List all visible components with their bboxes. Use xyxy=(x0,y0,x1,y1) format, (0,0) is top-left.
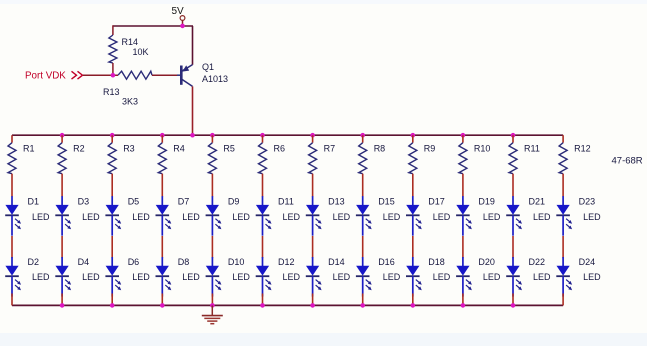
label D20 xyxy=(478,257,495,267)
label R13 xyxy=(103,87,120,97)
label D20 LED xyxy=(483,272,501,282)
label D18 xyxy=(428,257,445,267)
label R7 xyxy=(324,144,336,154)
node bottom bus junction col 4 xyxy=(160,303,165,308)
svg-text:LED: LED xyxy=(483,212,501,222)
svg-text:D21: D21 xyxy=(529,196,546,206)
label D1 xyxy=(28,196,40,206)
node top bus junction col 9 xyxy=(411,133,416,138)
svg-text:D18: D18 xyxy=(428,257,445,267)
label D23 xyxy=(579,196,596,206)
svg-text:47-68R: 47-68R xyxy=(612,156,643,167)
LED D22 xyxy=(506,257,522,297)
svg-text:3K3: 3K3 xyxy=(122,97,138,107)
label D24 LED xyxy=(583,272,601,282)
label D8 xyxy=(178,257,190,267)
wire bus to R12 xyxy=(562,135,564,143)
LED D19 xyxy=(456,196,472,236)
label D11 xyxy=(278,196,294,206)
wire bus to R1 xyxy=(11,135,13,143)
svg-text:LED: LED xyxy=(533,212,551,222)
wire bottom bus xyxy=(12,304,563,306)
label D16 xyxy=(378,257,395,267)
label D17 xyxy=(428,196,445,206)
wire D24 to bottom bus xyxy=(562,294,564,306)
resistor R9 xyxy=(409,143,417,174)
wire bus to R3 xyxy=(111,135,113,143)
wire D1 to D2 xyxy=(11,236,13,258)
wire D9 to D10 xyxy=(211,236,213,258)
label D24 xyxy=(579,257,596,267)
wire bus to R4 xyxy=(161,135,163,143)
label D3 xyxy=(78,196,90,206)
svg-text:LED: LED xyxy=(32,272,50,282)
node top bus junction col 3 xyxy=(110,133,115,138)
label D15 xyxy=(378,196,395,206)
wire D6 to bottom bus xyxy=(111,294,113,306)
label D9 LED xyxy=(232,212,250,222)
node top bus junction col 5 xyxy=(210,133,215,138)
svg-text:D8: D8 xyxy=(178,257,190,267)
LED D3 xyxy=(55,196,71,236)
resistor R2 xyxy=(58,143,66,174)
svg-text:LED: LED xyxy=(383,212,401,222)
svg-text:LED: LED xyxy=(232,272,250,282)
wire bus to R6 xyxy=(262,135,264,143)
label R3 xyxy=(123,144,135,154)
node bottom bus junction col 6 xyxy=(260,303,265,308)
svg-text:D3: D3 xyxy=(78,196,90,206)
port Port_VDK label xyxy=(25,71,66,82)
resistor R11 xyxy=(509,143,517,174)
label D19 xyxy=(478,196,495,206)
svg-text:D24: D24 xyxy=(579,257,596,267)
svg-text:D20: D20 xyxy=(478,257,495,267)
LED D15 xyxy=(356,196,372,236)
wire bus to R11 xyxy=(512,135,514,143)
label D15 LED xyxy=(383,212,401,222)
label D2 LED xyxy=(32,272,50,282)
wire bus to R7 xyxy=(312,135,314,143)
LED D23 xyxy=(556,196,572,236)
wire 5V horizontal xyxy=(113,25,193,27)
label Q1 xyxy=(202,62,214,72)
wire D17 to D18 xyxy=(412,236,414,258)
label D5 xyxy=(128,196,140,206)
label D14 LED xyxy=(333,272,351,282)
wire D5 to D6 xyxy=(111,236,113,258)
label D3 LED xyxy=(82,212,100,222)
svg-text:LED: LED xyxy=(283,212,301,222)
wire R11 to D21 xyxy=(512,174,514,197)
svg-text:R12: R12 xyxy=(574,144,591,154)
svg-text:LED: LED xyxy=(82,272,100,282)
LED D7 xyxy=(156,196,172,236)
wire R4 to D7 xyxy=(161,174,163,197)
node R13/R14 junction xyxy=(111,73,116,78)
wire D23 to D24 xyxy=(562,236,564,258)
node bottom bus junction col 11 xyxy=(511,303,516,308)
label D16 LED xyxy=(383,272,401,282)
label D11 LED xyxy=(283,212,301,222)
wire R14 bottom stub xyxy=(112,63,114,75)
resistor R4 xyxy=(158,143,166,174)
wire D21 to D22 xyxy=(512,236,514,258)
svg-text:LED: LED xyxy=(583,272,601,282)
wire bus to R5 xyxy=(211,135,213,143)
wire D13 to D14 xyxy=(312,236,314,258)
svg-text:10K: 10K xyxy=(133,47,149,57)
svg-text:R5: R5 xyxy=(223,144,235,154)
svg-text:LED: LED xyxy=(383,272,401,282)
label D4 xyxy=(78,257,90,267)
wire D8 to bottom bus xyxy=(161,294,163,306)
LED D9 xyxy=(206,196,222,236)
label D13 xyxy=(328,196,345,206)
svg-text:LED: LED xyxy=(132,272,150,282)
svg-text:R7: R7 xyxy=(324,144,336,154)
svg-text:D19: D19 xyxy=(478,196,495,206)
svg-text:D13: D13 xyxy=(328,196,345,206)
wire R5 to D9 xyxy=(211,174,213,197)
svg-text:D23: D23 xyxy=(579,196,596,206)
label D6 LED xyxy=(132,272,150,282)
node bottom bus junction col 7 xyxy=(310,303,315,308)
label D12 LED xyxy=(283,272,301,282)
resistor R6 xyxy=(259,143,267,174)
svg-text:R10: R10 xyxy=(474,144,491,154)
wire bus to R9 xyxy=(412,135,414,143)
svg-text:LED: LED xyxy=(333,212,351,222)
wire D20 to bottom bus xyxy=(462,294,464,306)
LED D2 xyxy=(5,257,21,297)
wire D18 to bottom bus xyxy=(412,294,414,306)
node top bus junction col 4 xyxy=(160,133,165,138)
LED D5 xyxy=(105,196,121,236)
svg-text:R2: R2 xyxy=(73,144,85,154)
label R8 xyxy=(374,144,386,154)
svg-text:LED: LED xyxy=(82,212,100,222)
node top bus junction col 2 xyxy=(60,133,65,138)
svg-text:LED: LED xyxy=(583,212,601,222)
resistor R3 xyxy=(108,143,116,174)
svg-text:D15: D15 xyxy=(378,196,395,206)
label R12 xyxy=(574,144,591,154)
wire D10 to bottom bus xyxy=(211,294,213,306)
label R1 xyxy=(23,144,35,154)
wire Q1 collector to bus xyxy=(192,86,194,135)
label R6 xyxy=(274,144,286,154)
resistor R13 xyxy=(118,71,152,79)
svg-text:D1: D1 xyxy=(28,196,40,206)
label D2 xyxy=(28,257,40,267)
LED D4 xyxy=(55,257,71,297)
label D9 xyxy=(228,196,240,206)
label D22 xyxy=(529,257,546,267)
svg-text:D7: D7 xyxy=(178,196,190,206)
svg-text:A1013: A1013 xyxy=(202,74,228,84)
svg-text:R11: R11 xyxy=(524,144,540,154)
svg-text:D12: D12 xyxy=(278,257,295,267)
wire R3 to D5 xyxy=(111,174,113,197)
wire D22 to bottom bus xyxy=(512,294,514,306)
label D13 LED xyxy=(333,212,351,222)
LED D6 xyxy=(105,257,121,297)
resistor R14 xyxy=(109,35,117,63)
wire R9 to D17 xyxy=(412,174,414,197)
node bottom bus junction col 3 xyxy=(110,303,115,308)
wire R10 to D19 xyxy=(462,174,464,197)
wire R14 top stub xyxy=(112,25,114,35)
wire bus to R2 xyxy=(61,135,63,143)
wire D14 to bottom bus xyxy=(312,294,314,306)
LED D10 xyxy=(206,257,222,297)
label D23 LED xyxy=(583,212,601,222)
svg-text:R13: R13 xyxy=(103,87,120,97)
LED D24 xyxy=(556,257,572,297)
port Port_VDK chevrons xyxy=(72,71,83,79)
label R14 value 10K xyxy=(133,47,149,57)
LED D1 xyxy=(5,196,21,236)
svg-text:R1: R1 xyxy=(23,144,35,154)
wire D11 to D12 xyxy=(262,236,264,258)
resistor R7 xyxy=(309,143,317,174)
node top bus junction col 7 xyxy=(310,133,315,138)
label R4 xyxy=(173,144,185,154)
node top bus junction col 6 xyxy=(260,133,265,138)
label D21 LED xyxy=(533,212,551,222)
wire D3 to D4 xyxy=(61,236,63,258)
wire R2 to D3 xyxy=(61,174,63,197)
svg-text:LED: LED xyxy=(32,212,50,222)
node bottom bus junction col 2 xyxy=(60,303,65,308)
wire 5V down to Q1 emitter xyxy=(192,26,194,65)
resistor R1 xyxy=(8,143,16,174)
wire bus to R10 xyxy=(462,135,464,143)
LED D17 xyxy=(406,196,422,236)
svg-text:D2: D2 xyxy=(28,257,40,267)
label D7 xyxy=(178,196,190,206)
svg-text:LED: LED xyxy=(333,272,351,282)
label R9 xyxy=(424,144,436,154)
LED D18 xyxy=(406,257,422,297)
label D4 LED xyxy=(82,272,100,282)
label R14 xyxy=(122,37,139,47)
svg-text:D16: D16 xyxy=(378,257,395,267)
label D21 xyxy=(529,196,546,206)
label D17 LED xyxy=(433,212,451,222)
resistor R10 xyxy=(459,143,467,174)
label D14 xyxy=(328,257,345,267)
wire R12 to D23 xyxy=(562,174,564,197)
svg-text:LED: LED xyxy=(433,272,451,282)
label R5 xyxy=(223,144,235,154)
svg-text:R14: R14 xyxy=(122,37,139,47)
label D12 xyxy=(278,257,295,267)
svg-text:D5: D5 xyxy=(128,196,140,206)
svg-text:LED: LED xyxy=(182,272,200,282)
svg-text:LED: LED xyxy=(182,212,200,222)
wire D12 to bottom bus xyxy=(262,294,264,306)
LED D8 xyxy=(156,257,172,297)
label resistor values 47-68R xyxy=(612,156,643,167)
wire top bus xyxy=(12,134,563,136)
ground xyxy=(202,305,223,323)
wire bus to R8 xyxy=(362,135,364,143)
label D18 LED xyxy=(433,272,451,282)
label D19 LED xyxy=(483,212,501,222)
LED D11 xyxy=(256,196,272,236)
node top bus junction col 8 xyxy=(360,133,365,138)
svg-text:LED: LED xyxy=(232,212,250,222)
power 5V terminal circle xyxy=(180,16,185,26)
resistor R5 xyxy=(208,143,216,174)
svg-text:D14: D14 xyxy=(328,257,345,267)
LED D21 xyxy=(506,196,522,236)
label D1 LED xyxy=(32,212,50,222)
svg-text:R4: R4 xyxy=(173,144,185,154)
node 5V junction xyxy=(180,24,185,29)
svg-text:Q1: Q1 xyxy=(202,62,214,72)
wire D2 to bottom bus xyxy=(11,294,13,306)
power 5V label xyxy=(172,6,185,17)
transistor Q1 xyxy=(177,65,193,87)
node bottom bus junction col 9 xyxy=(411,303,416,308)
node bottom bus junction col 5 xyxy=(210,303,215,308)
wire R13 to Q1 base xyxy=(152,74,177,76)
svg-text:R9: R9 xyxy=(424,144,436,154)
label D5 LED xyxy=(132,212,150,222)
node bottom bus junction col 8 xyxy=(360,303,365,308)
wire R8 to D15 xyxy=(362,174,364,197)
wire port to R13 xyxy=(83,74,118,76)
LED D13 xyxy=(306,196,322,236)
LED D14 xyxy=(306,257,322,297)
label D7 LED xyxy=(182,212,200,222)
label R10 xyxy=(474,144,491,154)
svg-text:LED: LED xyxy=(283,272,301,282)
svg-text:R3: R3 xyxy=(123,144,135,154)
svg-text:D22: D22 xyxy=(529,257,546,267)
wire R6 to D11 xyxy=(262,174,264,197)
svg-text:Port VDK: Port VDK xyxy=(25,71,66,82)
LED D16 xyxy=(356,257,372,297)
svg-text:R8: R8 xyxy=(374,144,386,154)
node top bus junction col 11 xyxy=(511,133,516,138)
resistor R8 xyxy=(359,143,367,174)
label D22 LED xyxy=(533,272,551,282)
svg-text:LED: LED xyxy=(132,212,150,222)
wire D7 to D8 xyxy=(161,236,163,258)
label R13 value 3K3 xyxy=(122,97,138,107)
node top bus junction col 10 xyxy=(461,133,466,138)
svg-text:D17: D17 xyxy=(428,196,445,206)
node bottom bus junction col 10 xyxy=(461,303,466,308)
wire D19 to D20 xyxy=(462,236,464,258)
label R11 xyxy=(524,144,540,154)
LED D12 xyxy=(256,257,272,297)
node Q1 collector junction xyxy=(190,133,195,138)
svg-text:D11: D11 xyxy=(278,196,294,206)
label D8 LED xyxy=(182,272,200,282)
wire R1 to D1 xyxy=(11,174,13,197)
label D10 LED xyxy=(232,272,250,282)
svg-text:R6: R6 xyxy=(274,144,286,154)
svg-text:D6: D6 xyxy=(128,257,140,267)
wire D4 to bottom bus xyxy=(61,294,63,306)
svg-text:LED: LED xyxy=(433,212,451,222)
svg-text:LED: LED xyxy=(483,272,501,282)
svg-text:LED: LED xyxy=(533,272,551,282)
svg-text:D9: D9 xyxy=(228,196,240,206)
svg-text:D4: D4 xyxy=(78,257,90,267)
svg-text:D10: D10 xyxy=(228,257,245,267)
resistor R12 xyxy=(559,143,567,174)
label R2 xyxy=(73,144,85,154)
label D10 xyxy=(228,257,245,267)
label D6 xyxy=(128,257,140,267)
LED D20 xyxy=(456,257,472,297)
wire D16 to bottom bus xyxy=(362,294,364,306)
label Q1 value A1013 xyxy=(202,74,228,84)
wire R7 to D13 xyxy=(312,174,314,197)
wire D15 to D16 xyxy=(362,236,364,258)
